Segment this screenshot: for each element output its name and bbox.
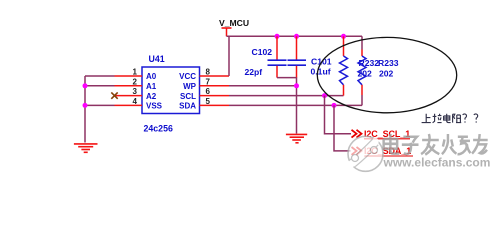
port I2C_SCL_1 <box>352 129 411 139</box>
拉 <box>433 114 442 123</box>
svg-text:www.elecfans.com: www.elecfans.com <box>383 155 491 169</box>
wire caps junction down to ground <box>296 78 298 134</box>
junction SCL branch <box>322 93 327 98</box>
pin 8 VCC <box>179 68 229 82</box>
wire C102 bottom to C101 bottom <box>277 77 297 79</box>
上 <box>422 114 431 123</box>
resistor R232 <box>340 36 348 95</box>
wire SCL branch down to label <box>325 96 352 134</box>
svg-text:WP: WP <box>183 82 197 91</box>
svg-text:U41: U41 <box>149 54 165 64</box>
wire SDA net <box>229 104 362 106</box>
wire pin4 to bus <box>85 104 115 106</box>
wire pin1 to bus <box>85 75 115 77</box>
svg-text:3: 3 <box>133 87 138 96</box>
wire left bus vertical to ground <box>84 76 86 143</box>
svg-text:2: 2 <box>133 77 138 86</box>
svg-text:A2: A2 <box>146 92 157 101</box>
capacitor C102 <box>268 36 287 77</box>
pin 7 WP <box>183 77 229 91</box>
svg-text:0.1uf: 0.1uf <box>311 67 331 77</box>
svg-text:R233: R233 <box>378 58 399 68</box>
annotation text 上拉电阻？？ (drawn strokes) <box>422 114 478 123</box>
svg-text:SDA: SDA <box>179 102 196 111</box>
junction WP/ground vertical <box>294 83 299 88</box>
svg-text:202: 202 <box>379 68 394 78</box>
pin 5 SDA <box>179 97 229 111</box>
pin 4 VSS <box>115 97 163 111</box>
wire SCL net <box>229 95 344 97</box>
电 <box>444 114 451 123</box>
wire pin2 to bus <box>85 85 115 87</box>
svg-text:VSS: VSS <box>146 102 163 111</box>
svg-text:7: 7 <box>206 77 211 86</box>
svg-text:V_MCU: V_MCU <box>219 18 249 28</box>
svg-text:A1: A1 <box>146 82 157 91</box>
no-connect cross on pin 3 <box>111 92 117 98</box>
svg-text:5: 5 <box>206 97 211 106</box>
svg-text:8: 8 <box>206 68 211 77</box>
svg-text:VCC: VCC <box>179 72 196 81</box>
阻 <box>453 114 462 122</box>
capacitor C101 <box>288 36 307 78</box>
watermark text 电子发烧友 (drawn strokes) <box>384 134 488 155</box>
power port V_MCU <box>219 18 249 37</box>
svg-text:SCL: SCL <box>180 92 196 101</box>
svg-text:A0: A0 <box>146 72 157 81</box>
junction pin2/bus <box>83 83 88 88</box>
annotation ellipse around pull-up resistors <box>317 37 456 112</box>
wire rail down to pin 8 <box>228 36 230 76</box>
pin 3 A2 <box>115 87 157 101</box>
子 <box>402 137 419 154</box>
svg-text:4: 4 <box>133 97 138 106</box>
？ 2 <box>474 114 478 123</box>
svg-text:24c256: 24c256 <box>144 124 173 134</box>
wire WP to ground vertical <box>229 85 297 87</box>
watermark logo circle <box>348 136 383 171</box>
wire SDA branch down to label <box>334 105 351 150</box>
pin 2 A1 <box>115 77 157 91</box>
友 <box>472 134 488 154</box>
resistor R233 <box>358 36 366 105</box>
pin 6 SCL <box>180 87 229 101</box>
svg-text:6: 6 <box>206 87 211 96</box>
svg-text:22pf: 22pf <box>245 67 263 77</box>
svg-text:C102: C102 <box>252 47 273 57</box>
电 <box>384 134 400 154</box>
junction rail/C102 <box>275 34 280 39</box>
pin 1 A0 <box>115 68 157 82</box>
ground symbol right <box>286 134 307 142</box>
junction SDA branch <box>332 103 337 108</box>
svg-text:1: 1 <box>133 68 138 77</box>
junction rail/R232 <box>341 34 346 39</box>
svg-text:R232: R232 <box>359 58 380 68</box>
junction pin4/bus <box>83 103 88 108</box>
烧 <box>442 134 471 154</box>
ground symbol left <box>74 144 98 152</box>
port I2C_SDA_1 <box>352 146 414 156</box>
junction rail/C101 <box>294 34 299 39</box>
？ <box>463 114 467 123</box>
发 <box>421 134 439 155</box>
wire V_MCU rail <box>227 35 363 37</box>
IC U41 body <box>142 67 200 114</box>
